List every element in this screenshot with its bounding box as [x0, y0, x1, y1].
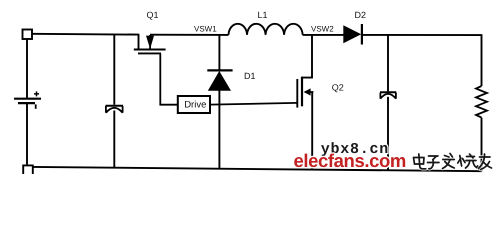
transistor Q2 source lead	[310, 91, 314, 93]
drive box	[178, 96, 210, 113]
wire: D1 anode to bottom rail	[218, 90, 220, 169]
svg-text:D2: D2	[355, 10, 367, 20]
diode D2 cathode bar	[361, 24, 363, 45]
wire: VSW1 node to D1 cathode	[218, 35, 220, 70]
input capacitor flat plate	[106, 105, 124, 107]
wire: Q2 source to bottom rail	[311, 92, 313, 170]
transistor Q1 drain lead	[149, 35, 151, 50]
char 电	[414, 154, 426, 169]
svg-text:Q1: Q1	[147, 10, 159, 20]
diode D1 cathode bar	[207, 69, 232, 71]
input terminal (bottom-left square)	[23, 165, 33, 174]
transistor Q2 gate bar	[296, 79, 298, 108]
wire: L1 to D2 anode (VSW2 node)	[303, 34, 344, 36]
diode D2	[343, 25, 361, 43]
wire: bottom rail	[33, 167, 482, 171]
output capacitor curved plate	[380, 93, 396, 99]
char 烧	[458, 154, 478, 168]
wire: drive output to Q2 gate	[210, 103, 297, 105]
char 子	[428, 156, 440, 169]
wire: top rail Q1 drain to L1	[150, 34, 229, 36]
char 发	[443, 154, 455, 169]
battery B1 plus sign	[34, 91, 39, 96]
transistor Q2 source arrow	[304, 88, 311, 95]
transistor Q1 source lead	[138, 35, 140, 49]
wire: D2 cathode to output corner	[362, 34, 483, 36]
battery B1 negative tick	[35, 104, 37, 108]
svg-text:D1: D1	[244, 71, 256, 81]
svg-text:Drive: Drive	[184, 100, 206, 111]
wire: output capacitor top lead	[387, 35, 389, 91]
input terminal (top-left square)	[23, 30, 33, 40]
wire: input capacitor bottom lead	[113, 111, 115, 168]
svg-text:VSW1: VSW1	[194, 24, 217, 33]
wire: input capacitor top lead	[113, 34, 115, 105]
input capacitor curved plate	[106, 106, 123, 113]
wire: output capacitor bottom lead	[387, 97, 389, 171]
wire: battery negative lead	[26, 104, 28, 166]
svg-text:VSW2: VSW2	[311, 24, 334, 33]
resistor R (load)	[476, 86, 487, 118]
svg-text:L1: L1	[258, 10, 268, 20]
diode D1	[208, 71, 231, 91]
transistor Q1 gate bar	[138, 52, 161, 54]
svg-text:elecfans.com: elecfans.com	[294, 150, 406, 171]
transistor Q1 arrow	[146, 36, 154, 46]
output capacitor flat plate	[380, 91, 396, 93]
wire: load resistor bottom lead	[481, 118, 483, 172]
wire: top rail from input terminal to Q1 source	[32, 33, 139, 36]
wire: Q2 drain lead	[303, 35, 313, 78]
transistor Q2 channel bar	[301, 77, 303, 107]
watermark chinese characters 电子发烧友	[414, 154, 492, 170]
wire: load resistor top lead	[481, 35, 483, 86]
transistor Q1 channel bar	[134, 49, 166, 51]
battery B1 positive plate	[14, 98, 41, 100]
char 友	[479, 154, 492, 170]
wire: battery positive lead	[26, 39, 28, 99]
svg-text:Q2: Q2	[332, 83, 344, 93]
transistor Q1 gate lead	[160, 53, 178, 104]
inductor L1	[229, 24, 303, 35]
battery B1 negative plate	[18, 102, 35, 104]
